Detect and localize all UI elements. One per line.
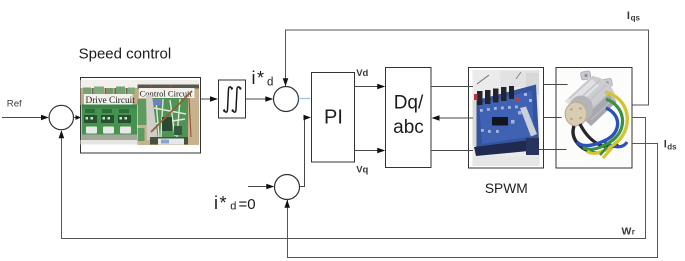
node i*d=0 label <box>214 193 256 213</box>
wire PI Vd output to Dq/abc <box>355 86 379 88</box>
svg-text:i*: i* <box>252 68 266 88</box>
wire SPWM to motor (3 lines) <box>544 84 568 86</box>
wire PI Vq output to Dq/abc <box>355 150 379 152</box>
SPWM block (photo box) <box>469 68 544 169</box>
svg-text:Ref: Ref <box>7 98 22 109</box>
Dq/abc block <box>386 68 432 168</box>
svg-text:Dq/: Dq/ <box>394 93 424 114</box>
svg-text:Vq: Vq <box>356 164 368 175</box>
wire integrator to summing junction S2 <box>246 98 268 100</box>
PI controller block <box>312 73 355 163</box>
wire SPWM to Dq/abc middle (feedback arrow) <box>439 117 474 119</box>
svg-text:d: d <box>267 77 273 89</box>
svg-text:Vd: Vd <box>356 68 368 79</box>
wire Wr feedback path <box>62 118 646 239</box>
wire S1 to speed control box <box>74 117 79 119</box>
summing junction S3 (id ref) <box>275 175 300 200</box>
wire Iqs feedback top path <box>286 30 649 105</box>
wire Dq/abc to SPWM bottom <box>431 150 473 152</box>
summing junction S2 (iq ref) <box>274 87 299 112</box>
svg-text:SPWM: SPWM <box>485 181 528 196</box>
wire S3 to PI lower input <box>300 118 305 187</box>
node Iqs label <box>627 10 641 23</box>
control circuit photo <box>138 80 200 145</box>
motor collar <box>569 96 593 122</box>
node i*d reference label <box>252 68 274 89</box>
wire Ref input arrow <box>2 117 43 119</box>
svg-text:abc: abc <box>393 117 424 138</box>
svg-text:i*: i* <box>214 193 228 213</box>
integrator block (double integral) <box>219 80 246 118</box>
svg-text:I: I <box>627 10 630 22</box>
motor block (photo box) <box>556 68 632 169</box>
wire S2 to PI (blue) <box>299 98 311 100</box>
svg-text:ds: ds <box>667 142 677 151</box>
motor body <box>565 78 617 127</box>
speed control block (photo box) <box>81 78 201 154</box>
svg-text:r: r <box>632 228 635 237</box>
wire Ids feedback path <box>288 144 658 258</box>
svg-text:W: W <box>622 225 632 237</box>
wire input arrow to S3 <box>248 186 267 188</box>
motor cables <box>573 126 596 153</box>
drive circuit photo <box>81 80 138 145</box>
SPWM photo <box>473 70 540 166</box>
svg-text:Speed control: Speed control <box>79 45 172 62</box>
node Ids label <box>664 139 677 152</box>
svg-text:qs: qs <box>631 13 641 22</box>
svg-text:d: d <box>230 201 236 213</box>
node Wr label <box>622 225 635 237</box>
wire speed box to integrator <box>201 98 212 100</box>
summing junction S1 (speed error) <box>49 105 73 129</box>
motor front cap <box>565 102 587 126</box>
svg-text:=0: =0 <box>239 196 256 213</box>
svg-text:PI: PI <box>324 107 343 129</box>
wire Dq/abc to SPWM top <box>431 86 473 88</box>
motor photo <box>558 69 631 167</box>
motor mounting lugs <box>580 71 612 88</box>
